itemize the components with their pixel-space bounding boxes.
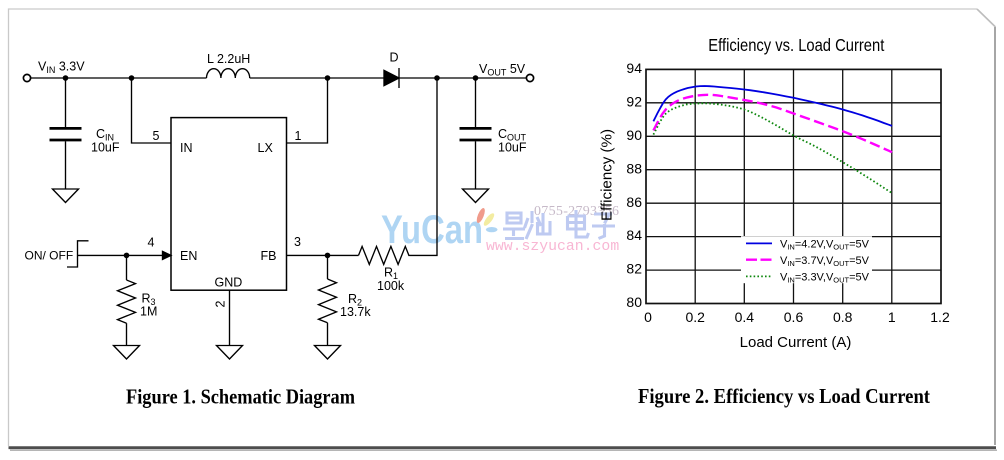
wire R1 to Vout rail	[412, 78, 437, 255]
plot frame	[646, 69, 941, 303]
svg-text:D: D	[390, 51, 399, 65]
svg-text:100k: 100k	[377, 279, 405, 293]
wire top rail input section	[31, 77, 207, 79]
watermark spark icon yellow petal	[482, 212, 496, 228]
svg-text:1M: 1M	[140, 305, 157, 319]
svg-text:Efficiency vs. Load Current: Efficiency vs. Load Current	[708, 35, 884, 55]
wire FB to node	[287, 254, 328, 256]
diode D	[384, 70, 399, 85]
ground below pin2	[217, 346, 243, 360]
svg-text:94: 94	[626, 60, 642, 76]
char 电	[568, 210, 589, 237]
svg-text:10uF: 10uF	[498, 141, 527, 155]
wire diode to output terminal	[399, 77, 527, 79]
svg-text:FB: FB	[261, 249, 277, 263]
svg-text:VIN 3.3V: VIN 3.3V	[38, 60, 85, 76]
wire R2 to ground	[327, 323, 329, 346]
wire R2 branch	[327, 255, 329, 279]
legend blue sample	[746, 242, 772, 244]
junction node EN/R3	[124, 253, 130, 259]
output terminal	[526, 74, 533, 81]
svg-text:84: 84	[626, 227, 642, 243]
junction node Vout/Cout	[473, 75, 479, 81]
junction node Vin/pin5	[129, 75, 135, 81]
char 子	[592, 214, 615, 239]
svg-text:Efficiency (%): Efficiency (%)	[599, 129, 616, 221]
watermark chinese characters	[503, 210, 615, 239]
ON/OFF level symbol	[67, 241, 89, 267]
junction node Vin/Cin	[63, 75, 69, 81]
wire FB node to R1	[328, 254, 359, 256]
x axis labels	[644, 309, 950, 325]
svg-text:86: 86	[626, 194, 642, 210]
capacitor C_OUT plates	[460, 128, 492, 140]
svg-text:0.4: 0.4	[735, 309, 755, 325]
char 灿	[525, 211, 551, 239]
svg-text:0.2: 0.2	[685, 309, 705, 325]
svg-text:4: 4	[148, 236, 155, 250]
resistor R3 zigzag	[118, 280, 136, 323]
gridlines vertical	[695, 69, 892, 303]
watermark spark icon red petal	[475, 207, 486, 224]
wire pin1 branch	[287, 78, 328, 143]
svg-text:90: 90	[626, 127, 642, 143]
svg-text:Figure 2. Efficiency vs Load: Figure 2. Efficiency vs Load Current	[638, 384, 930, 408]
wire EN input	[78, 254, 164, 256]
arrow into EN pin	[163, 251, 172, 259]
junction node FB/R2/R1	[325, 253, 331, 259]
svg-text:Figure 1. Schematic Diagram: Figure 1. Schematic Diagram	[126, 384, 355, 408]
legend green sample	[746, 275, 772, 277]
watermark group	[381, 204, 619, 255]
legend magenta sample	[746, 259, 772, 261]
junction node R1 top	[434, 75, 440, 81]
svg-text:LX: LX	[258, 141, 274, 155]
chart group	[599, 35, 950, 351]
wire C_OUT to ground	[475, 141, 477, 189]
IC body U1	[171, 118, 287, 291]
wire C_OUT branch	[475, 78, 477, 127]
wire top rail inductor to diode	[250, 77, 384, 79]
svg-text:1: 1	[295, 129, 302, 143]
y axis labels	[626, 60, 642, 310]
wire C_IN to ground	[65, 141, 67, 189]
wire C_IN branch	[65, 78, 67, 127]
curve VIN=3.3V green dotted	[653, 103, 892, 193]
curve VIN=3.7V magenta dashed	[653, 95, 892, 152]
resistor R1 zigzag	[359, 246, 413, 264]
svg-text:1: 1	[888, 309, 896, 325]
svg-text:IN: IN	[180, 141, 193, 155]
char 昱	[503, 213, 525, 239]
svg-text:2: 2	[214, 301, 228, 308]
svg-text:80: 80	[626, 294, 642, 310]
svg-text:ON/ OFF: ON/ OFF	[25, 249, 74, 263]
legend labels	[780, 239, 870, 285]
wire R3 to ground	[126, 323, 128, 345]
wire pin5 branch	[132, 78, 172, 143]
wire GND pin 2	[229, 290, 231, 345]
svg-text:YuCan: YuCan	[381, 208, 483, 252]
svg-text:13.7k: 13.7k	[340, 305, 371, 319]
svg-text:5: 5	[153, 129, 160, 143]
capacitor C_IN plates	[50, 128, 82, 140]
ground below C_OUT	[463, 189, 489, 203]
svg-text:Load Current (A): Load Current (A)	[740, 334, 852, 351]
svg-text:10uF: 10uF	[91, 141, 120, 155]
svg-text:EN: EN	[180, 249, 197, 263]
ground below R2	[315, 346, 341, 360]
svg-text:3: 3	[294, 235, 301, 249]
ground below R3	[114, 346, 140, 360]
curve VIN=4.2V blue	[653, 86, 892, 126]
resistor R2 zigzag	[319, 279, 337, 323]
watermark dash	[486, 227, 498, 232]
svg-text:92: 92	[626, 93, 642, 109]
svg-text:82: 82	[626, 261, 642, 277]
svg-text:GND: GND	[215, 276, 243, 290]
input terminal	[23, 74, 30, 81]
svg-text:0: 0	[644, 309, 652, 325]
junction node LX	[325, 75, 331, 81]
legend background	[741, 236, 872, 283]
svg-text:88: 88	[626, 160, 642, 176]
svg-text:0.8: 0.8	[833, 309, 853, 325]
svg-text:0.6: 0.6	[784, 309, 804, 325]
gridlines horizontal	[646, 103, 941, 270]
svg-text:www.szyucan.com: www.szyucan.com	[486, 239, 619, 255]
wire R3 branch	[126, 255, 128, 280]
svg-text:L 2.2uH: L 2.2uH	[207, 52, 250, 66]
svg-text:1.2: 1.2	[930, 309, 950, 325]
ground below C_IN	[53, 189, 79, 203]
inductor L1 arcs	[207, 69, 250, 78]
